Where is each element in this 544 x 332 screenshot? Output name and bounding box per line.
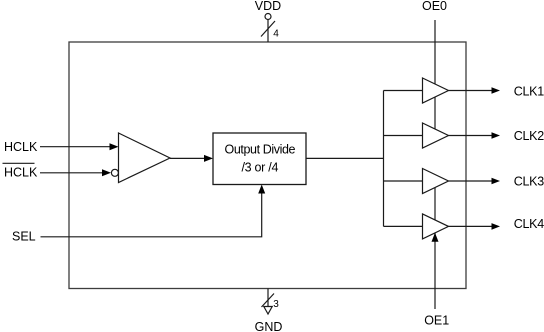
wire U4 to CLK3 bbox=[449, 180, 494, 182]
arrowhead CLK1 bbox=[492, 87, 501, 94]
open arrowhead GND bbox=[264, 307, 272, 315]
svg-text:HCLK: HCLK bbox=[4, 166, 38, 180]
svg-text:VDD: VDD bbox=[255, 0, 281, 13]
inversion bubble on HCLKbar input bbox=[111, 169, 118, 176]
wire U1 apex to divider bbox=[170, 157, 206, 159]
wire SEL to divider (L-shape) bbox=[41, 191, 262, 237]
wire divider output to bus bbox=[306, 157, 384, 159]
svg-text:SEL: SEL bbox=[12, 230, 36, 244]
svg-text:CLK4: CLK4 bbox=[514, 217, 544, 231]
wire bus to U5 bbox=[384, 225, 423, 227]
wire bus to U4 bbox=[384, 180, 423, 182]
wire OE1 up through buffer U5 to buffer U4 bbox=[434, 188, 436, 310]
bus-width slash on VDD wire bbox=[261, 21, 275, 37]
svg-text:OE1: OE1 bbox=[424, 314, 449, 328]
wire HCLK to buffer U1 bbox=[40, 146, 111, 148]
output buffer U4 bbox=[423, 169, 449, 194]
wire U5 to CLK4 bbox=[449, 225, 494, 227]
arrowhead HCLKbar bbox=[102, 169, 111, 176]
input buffer U1 bbox=[119, 133, 171, 183]
output buffer U2 bbox=[423, 78, 449, 103]
output buffer U5 bbox=[423, 214, 449, 239]
svg-text:OE0: OE0 bbox=[422, 0, 447, 13]
bus-width slash on GND wire bbox=[262, 294, 275, 308]
arrowhead HCLK bbox=[110, 143, 119, 150]
wire OE0 down through buffer U2 to buffer U3 bbox=[434, 20, 436, 130]
arrowhead CLK4 bbox=[492, 223, 501, 230]
wire U2 to CLK1 bbox=[449, 90, 494, 92]
wire bus to U3 bbox=[384, 135, 423, 137]
svg-text:CLK2: CLK2 bbox=[514, 129, 544, 143]
svg-text:3: 3 bbox=[273, 299, 279, 310]
divider block U6 bbox=[213, 133, 306, 185]
arrowhead SEL into divider bbox=[258, 185, 265, 194]
svg-text:HCLK: HCLK bbox=[4, 140, 38, 154]
wire VDD to box bbox=[267, 20, 269, 43]
overline for HCLKbar bbox=[3, 162, 35, 164]
outer block boundary bbox=[69, 42, 466, 289]
wire bus to U2 bbox=[384, 90, 423, 92]
svg-text:CLK3: CLK3 bbox=[514, 174, 544, 188]
svg-text:CLK1: CLK1 bbox=[514, 84, 544, 98]
VDD pin circle bbox=[265, 14, 271, 20]
bus vertical wire bbox=[383, 91, 385, 227]
arrowhead OE1 into buffer U5 bbox=[432, 233, 439, 242]
svg-text:GND: GND bbox=[255, 320, 283, 332]
arrowhead into divider bbox=[204, 155, 213, 162]
svg-text:/3 or /4: /3 or /4 bbox=[241, 160, 278, 174]
wire GND from box bbox=[267, 289, 269, 308]
arrowhead CLK3 bbox=[492, 178, 501, 185]
output buffer U3 bbox=[423, 123, 449, 148]
svg-text:4: 4 bbox=[273, 28, 279, 39]
wire HCLKbar to buffer U1 bbox=[40, 172, 104, 174]
arrowhead CLK2 bbox=[492, 132, 501, 139]
wire U3 to CLK2 bbox=[449, 135, 494, 137]
svg-text:Output Divide: Output Divide bbox=[225, 142, 296, 156]
